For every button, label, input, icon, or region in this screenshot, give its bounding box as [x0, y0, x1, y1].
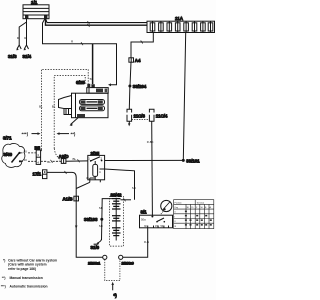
solenoid terminal 30: [91, 84, 94, 87]
wire A4 to 33/204: [130, 62, 131, 86]
svg-text:3/1: 3/1: [141, 210, 148, 215]
legend note 2: [2, 276, 43, 280]
svg-text:33/204: 33/204: [133, 84, 147, 89]
svg-text:BL: BL: [39, 105, 43, 109]
svg-text:31/4: 31/4: [23, 54, 32, 59]
svg-text:11C/3: 11C/3: [134, 114, 146, 119]
svg-text:6/25: 6/25: [76, 80, 85, 85]
wire fuse5 down to 33/101: [183, 33, 185, 161]
svg-text:2/288:9: 2/288:9: [122, 262, 134, 266]
starter internal links: [75, 93, 77, 118]
field winding window top: [80, 100, 105, 105]
svg-text:(Cars with alarm system: (Cars with alarm system: [8, 263, 46, 267]
svg-text:Manual transmission: Manual transmission: [10, 276, 43, 280]
wire 17/1 to A1/B wire: [47, 171, 76, 178]
alarm system terminal 2/288:9: [119, 255, 134, 265]
wire battery negative to grounds: [16, 19, 28, 51]
svg-text:11A: 11A: [175, 16, 184, 21]
svg-text:R-BK: R-BK: [147, 140, 154, 144]
svg-text:refer to page 186): refer to page 186): [8, 267, 36, 271]
svg-text:50: 50: [24, 158, 28, 162]
connector B5: [35, 145, 42, 164]
ground 31/0: [91, 239, 102, 250]
svg-text:Position: Position: [175, 201, 182, 204]
wire battery positive to starter (R): [43, 19, 117, 87]
ignition key position table: [174, 200, 214, 229]
wire relay contact to 33/101: [105, 159, 184, 161]
solenoid terminal 50: [87, 84, 90, 87]
svg-text:17/1: 17/1: [33, 172, 42, 177]
svg-text:SB: SB: [99, 206, 103, 210]
starter harness dashed wire (manual): [54, 76, 87, 161]
svg-text:31/3: 31/3: [8, 54, 17, 59]
svg-text:Key: Key: [175, 207, 178, 209]
wire B5 to A3/D (BL): [41, 160, 62, 164]
wire relay coil to timer unit: [105, 169, 136, 200]
starter ground wire: [71, 118, 79, 125]
alarm system terminal 2/288:1: [88, 255, 107, 265]
solenoid body: [87, 88, 108, 94]
connector 17/1: [33, 170, 47, 179]
wire down to alarm terminal: [76, 178, 102, 258]
svg-text:50a: 50a: [141, 218, 146, 222]
svg-text:*): *): [114, 293, 118, 298]
connector 11C/3: [127, 109, 146, 126]
wire fuse1 to connector A4: [131, 33, 153, 59]
splice 33/103: [84, 217, 103, 222]
svg-text:33/101: 33/101: [186, 158, 200, 163]
svg-text:Terminal: Terminal: [197, 202, 205, 204]
svg-text:31/0: 31/0: [91, 245, 100, 250]
svg-text:R-N: R-N: [144, 240, 149, 244]
connector A4: [129, 58, 141, 63]
connector A3/D: [59, 154, 69, 163]
wire timer right to relay wire: [121, 199, 132, 201]
battery 1/1: [23, 0, 49, 19]
svg-text:11C/4: 11C/4: [156, 114, 168, 119]
svg-text:50: 50: [90, 77, 94, 81]
svg-text:**): **): [2, 276, 6, 280]
svg-text:31: 31: [86, 176, 90, 180]
fuse box 11A: [147, 16, 215, 33]
svg-text:BL: BL: [52, 105, 56, 109]
svg-text:3/71: 3/71: [3, 136, 12, 141]
wire 11C/4 to ignition switch 3/1: [147, 121, 154, 215]
starter harness dashed wire (automatic): [41, 69, 88, 149]
wire switch to B5 (30): [21, 149, 37, 153]
splice 33/204: [128, 84, 146, 89]
relay 2/25: [86, 151, 105, 182]
svg-text:BL: BL: [73, 157, 77, 161]
svg-text:**): **): [71, 132, 76, 137]
svg-text:***): ***): [1, 285, 6, 289]
svg-text:SB: SB: [99, 224, 103, 228]
variant arrow manual: [57, 132, 76, 137]
svg-text:Automatic transmission: Automatic transmission: [10, 285, 48, 289]
svg-text:*): *): [3, 258, 5, 262]
wire switch to B5 (50): [21, 158, 36, 162]
relay coil: [93, 164, 98, 176]
wire relay coil pin to A1/B: [76, 182, 90, 188]
svg-text:A4: A4: [135, 58, 141, 63]
wire ignition switch to alarm terminal: [123, 228, 149, 257]
connector 11C/4: [149, 109, 167, 121]
svg-text:Cars without Car alarm system: Cars without Car alarm system: [8, 258, 57, 262]
ignition switch 3/1: [140, 210, 173, 228]
wire battery positive double line to fuse box: [46, 19, 148, 27]
connector A1/B: [63, 196, 79, 201]
svg-text:***): ***): [22, 132, 29, 137]
variant arrow automatic: [22, 132, 41, 137]
nose cone: [59, 96, 72, 115]
dashed link 11C/3 to 11C/4: [132, 119, 149, 121]
svg-text:30: 30: [24, 149, 28, 153]
wire timer left to ground: [99, 199, 112, 240]
wire battery cable to starter 30: [92, 44, 94, 84]
dashed jumper without alarm: [105, 259, 120, 298]
timer/terminal unit 38/42: [110, 193, 124, 247]
gear selector housing cloud 3/71: [2, 136, 25, 168]
wire A3/D to relay (BL): [66, 157, 88, 162]
svg-text:2/288:1: 2/288:1: [88, 262, 100, 266]
wire 33/204 to 11C/3: [128, 86, 131, 109]
motor body: [72, 93, 109, 118]
svg-text:3/40: 3/40: [4, 152, 13, 157]
wire color BL labels on dashed wires: [39, 105, 56, 109]
starter inhibitor switch 3/40: [4, 152, 22, 163]
svg-text:A1/B: A1/B: [63, 197, 73, 202]
legend note 1: [3, 258, 57, 271]
junction 33/101: [182, 158, 200, 163]
starter motor 6/25: [59, 77, 109, 126]
legend note 3: [1, 285, 48, 289]
svg-text:SB: SB: [132, 186, 136, 190]
svg-text:33/103: 33/103: [84, 217, 98, 222]
ignition key symbol: [160, 200, 172, 215]
field winding window bottom: [80, 106, 105, 111]
